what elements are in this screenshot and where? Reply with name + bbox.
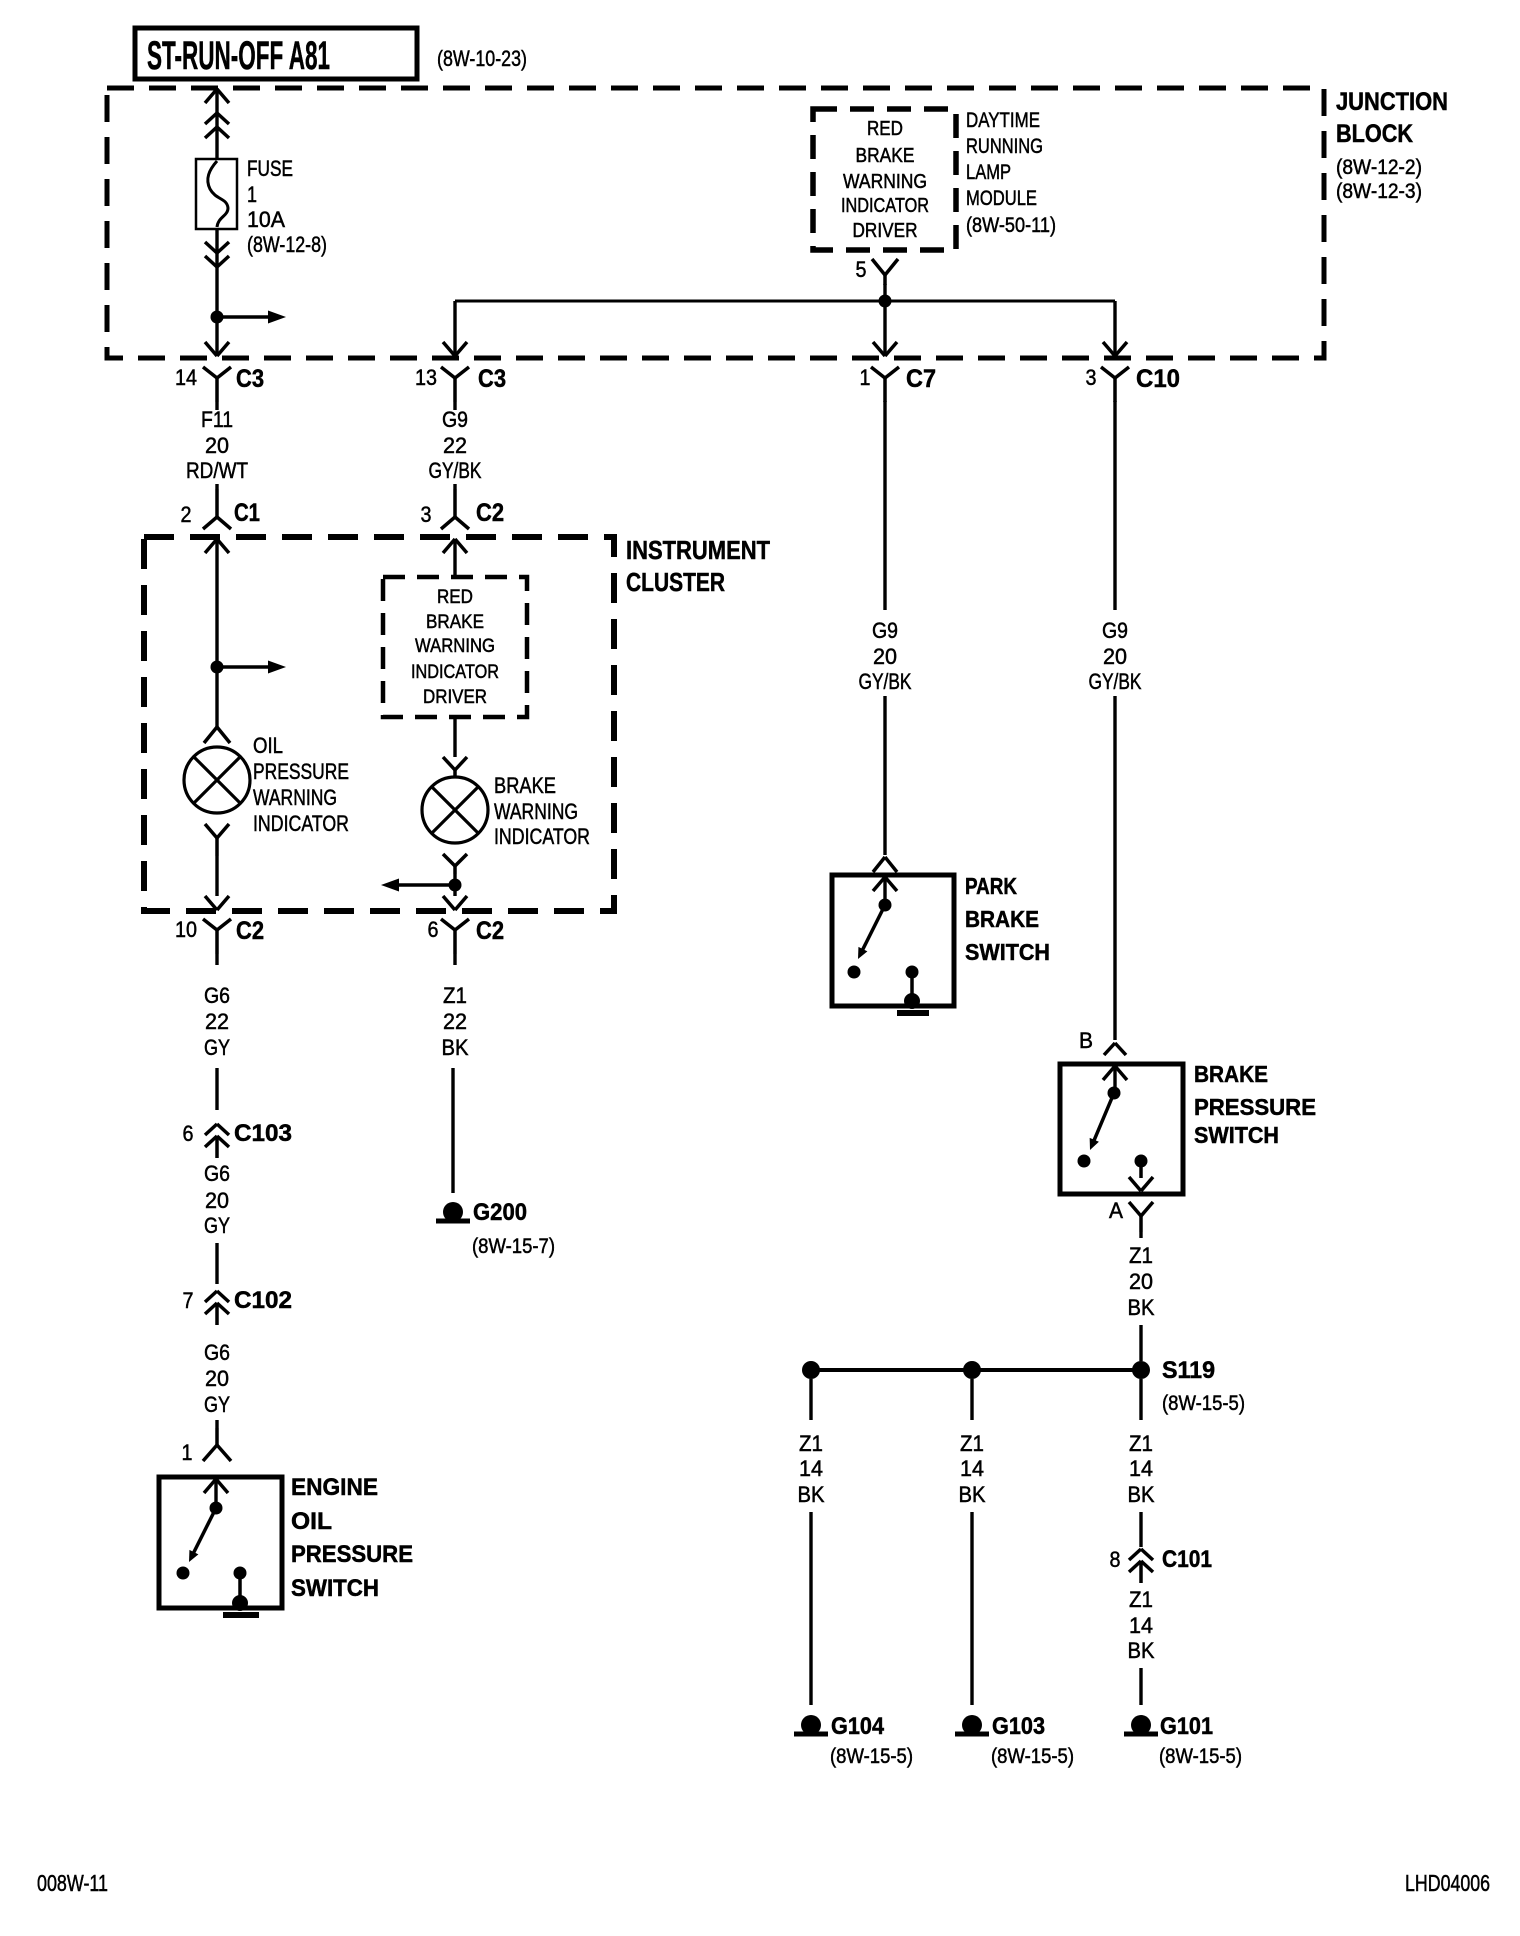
svg-text:Z1: Z1 xyxy=(1129,1431,1153,1456)
connector C10 pin 3 xyxy=(1103,342,1115,356)
switch ground bar xyxy=(223,1612,259,1618)
svg-text:GY/BK: GY/BK xyxy=(1089,669,1142,694)
svg-text:WARNING: WARNING xyxy=(843,171,927,193)
svg-text:CLUSTER: CLUSTER xyxy=(626,567,725,597)
svg-text:20: 20 xyxy=(1103,644,1127,669)
svg-text:BK: BK xyxy=(1128,1482,1155,1507)
svg-text:F11: F11 xyxy=(201,407,233,432)
switch contact left xyxy=(177,1567,190,1580)
svg-text:(8W-50-11): (8W-50-11) xyxy=(966,214,1056,237)
brake warning indicator lamp xyxy=(422,777,488,843)
instrument cluster outline xyxy=(144,537,614,911)
connector C2 pin 10 xyxy=(203,919,217,930)
svg-text:3: 3 xyxy=(421,502,432,527)
daytime running lamp module (red brake warning indicator driver) xyxy=(813,109,956,250)
svg-text:8: 8 xyxy=(1110,1547,1121,1572)
svg-text:14: 14 xyxy=(799,1456,823,1481)
connector C102 pin 7 xyxy=(205,1291,217,1302)
connector C3 pin 13 xyxy=(443,342,455,356)
wire into cluster pin2 xyxy=(205,539,217,553)
wire DRL pin5 xyxy=(883,284,886,301)
wire to C2 pin 10 xyxy=(215,856,218,896)
wire to C103 xyxy=(215,1068,218,1110)
svg-text:2: 2 xyxy=(181,502,192,527)
svg-text:SWITCH: SWITCH xyxy=(1194,1122,1279,1148)
svg-text:G103: G103 xyxy=(992,1713,1045,1740)
svg-text:Z1: Z1 xyxy=(960,1431,984,1456)
park brake contact right xyxy=(906,966,919,979)
ground G104 xyxy=(801,1715,821,1735)
svg-text:FUSE: FUSE xyxy=(247,156,293,181)
svg-text:PRESSURE: PRESSURE xyxy=(253,759,349,784)
svg-text:SWITCH: SWITCH xyxy=(291,1575,379,1602)
svg-text:6: 6 xyxy=(183,1121,194,1146)
wire to C1 xyxy=(215,484,218,489)
wire to oil lamp xyxy=(215,667,218,728)
ground G200 xyxy=(443,1202,463,1222)
junction dot with branch arrow in cluster xyxy=(211,661,224,674)
svg-text:G6: G6 xyxy=(204,983,230,1008)
splice S119 bus xyxy=(811,1368,1141,1372)
svg-text:C3: C3 xyxy=(478,365,506,393)
switch pin 1 connector xyxy=(215,1428,219,1445)
wire A81 to fuse xyxy=(205,89,217,103)
wire below fuse xyxy=(215,229,218,317)
wire to C102 xyxy=(215,1243,218,1284)
svg-text:BK: BK xyxy=(1128,1295,1155,1320)
svg-text:DRIVER: DRIVER xyxy=(853,220,918,242)
svg-text:PRESSURE: PRESSURE xyxy=(291,1541,413,1568)
wire into cluster pin3 xyxy=(443,539,455,553)
svg-text:LAMP: LAMP xyxy=(966,161,1011,184)
splice dot middle xyxy=(963,1361,981,1379)
junction dot with branch arrow xyxy=(211,311,224,324)
wire junction to C3/C7/C10 xyxy=(455,300,1115,303)
switch ground exit dot xyxy=(232,1595,248,1611)
svg-text:INDICATOR: INDICATOR xyxy=(494,824,590,849)
connector C2 pin 6 xyxy=(441,919,455,930)
inline connector above fuse xyxy=(205,113,217,124)
svg-text:(8W-15-5): (8W-15-5) xyxy=(830,1745,913,1768)
svg-text:Z1: Z1 xyxy=(443,983,467,1008)
wire F11 xyxy=(215,402,218,410)
svg-text:ST-RUN-OFF A81: ST-RUN-OFF A81 xyxy=(147,34,330,78)
park brake blade xyxy=(860,905,885,955)
svg-text:G6: G6 xyxy=(204,1161,230,1186)
svg-text:DRIVER: DRIVER xyxy=(423,687,487,708)
svg-text:INDICATOR: INDICATOR xyxy=(411,662,499,683)
park brake contact left xyxy=(848,966,861,979)
svg-text:OIL: OIL xyxy=(291,1508,332,1535)
svg-text:C2: C2 xyxy=(236,917,264,945)
wire to switch pin 1 xyxy=(215,1420,218,1428)
svg-text:008W-11: 008W-11 xyxy=(37,1870,108,1896)
park brake ground bar xyxy=(897,1010,929,1016)
svg-text:7: 7 xyxy=(183,1288,194,1313)
svg-text:20: 20 xyxy=(873,644,897,669)
connector C1 pin 2 xyxy=(215,489,219,517)
wire G9 22 xyxy=(453,402,456,410)
svg-text:Z1: Z1 xyxy=(1129,1587,1153,1612)
wire G103 column xyxy=(970,1379,973,1420)
svg-text:G9: G9 xyxy=(442,407,468,432)
oil pressure warning indicator lamp xyxy=(184,747,250,813)
svg-text:RED: RED xyxy=(437,587,473,608)
pin A connector xyxy=(1129,1202,1141,1216)
svg-text:C2: C2 xyxy=(476,917,504,945)
svg-text:BRAKE: BRAKE xyxy=(426,612,484,633)
svg-text:22: 22 xyxy=(443,433,467,458)
svg-text:G200: G200 xyxy=(473,1199,527,1226)
svg-text:JUNCTION: JUNCTION xyxy=(1336,88,1448,116)
wire to C7 xyxy=(883,301,886,356)
splice dot left xyxy=(802,1361,820,1379)
svg-text:B: B xyxy=(1079,1028,1093,1053)
svg-text:(8W-15-5): (8W-15-5) xyxy=(1162,1392,1245,1415)
park brake input arrow xyxy=(873,877,885,891)
svg-text:C102: C102 xyxy=(234,1287,292,1314)
svg-text:BRAKE: BRAKE xyxy=(965,906,1039,932)
svg-text:GY: GY xyxy=(204,1392,230,1417)
svg-text:(8W-12-2): (8W-12-2) xyxy=(1336,156,1422,179)
svg-text:10A: 10A xyxy=(247,207,285,232)
oil lamp output Y xyxy=(205,824,217,838)
wire to junction xyxy=(453,874,456,885)
svg-text:Z1: Z1 xyxy=(799,1431,823,1456)
svg-text:3: 3 xyxy=(1086,365,1097,390)
svg-text:G104: G104 xyxy=(831,1713,885,1740)
wire to C2 pin 6 xyxy=(453,885,456,896)
svg-text:A: A xyxy=(1109,1198,1123,1223)
svg-text:(8W-15-7): (8W-15-7) xyxy=(472,1235,555,1258)
svg-text:1: 1 xyxy=(182,1440,193,1465)
driver output Y xyxy=(443,757,455,770)
wire G104 column xyxy=(809,1379,812,1420)
svg-text:PARK: PARK xyxy=(965,873,1017,899)
svg-text:PRESSURE: PRESSURE xyxy=(1194,1094,1316,1120)
svg-text:14: 14 xyxy=(175,365,197,390)
svg-text:INDICATOR: INDICATOR xyxy=(253,811,349,836)
svg-text:20: 20 xyxy=(1129,1269,1153,1294)
svg-text:20: 20 xyxy=(205,1366,229,1391)
svg-text:10: 10 xyxy=(175,917,197,942)
connector C101 pin 8 xyxy=(1129,1549,1141,1560)
junction block outline xyxy=(107,88,1324,358)
svg-text:WARNING: WARNING xyxy=(253,785,337,810)
switch input arrow xyxy=(204,1479,216,1493)
svg-text:(8W-15-5): (8W-15-5) xyxy=(991,1745,1074,1768)
brake pressure blade xyxy=(1092,1093,1114,1145)
svg-text:20: 20 xyxy=(205,433,229,458)
svg-text:ENGINE: ENGINE xyxy=(291,1474,378,1501)
wire label Z1 22 BK xyxy=(453,954,456,965)
brake pressure switch box xyxy=(1060,1064,1183,1194)
svg-text:LHD04006: LHD04006 xyxy=(1405,1870,1490,1896)
svg-text:GY/BK: GY/BK xyxy=(859,669,912,694)
svg-text:BK: BK xyxy=(442,1035,469,1060)
svg-text:RUNNING: RUNNING xyxy=(966,135,1043,158)
brake pressure contact left xyxy=(1078,1155,1091,1168)
svg-text:MODULE: MODULE xyxy=(966,187,1037,210)
svg-text:BK: BK xyxy=(959,1482,986,1507)
connector C7 pin 1 xyxy=(873,342,885,356)
svg-text:6: 6 xyxy=(428,917,439,942)
engine oil pressure switch box xyxy=(159,1477,282,1608)
svg-text:(8W-15-5): (8W-15-5) xyxy=(1159,1745,1242,1768)
switch contact right xyxy=(234,1567,247,1580)
svg-text:C10: C10 xyxy=(1136,365,1180,393)
splice dot right S119 xyxy=(1132,1361,1150,1379)
DRL pin 5 xyxy=(872,259,885,275)
brake pressure output arrow xyxy=(1129,1177,1141,1191)
svg-text:SWITCH: SWITCH xyxy=(965,939,1050,965)
svg-text:BK: BK xyxy=(1128,1638,1155,1663)
ground G101 xyxy=(1131,1715,1151,1735)
connector C2 pin 3 xyxy=(453,489,457,517)
svg-text:G6: G6 xyxy=(204,1340,230,1365)
brake pressure contact right xyxy=(1135,1155,1148,1168)
svg-text:INSTRUMENT: INSTRUMENT xyxy=(626,535,770,565)
junction dot at DRL output xyxy=(879,295,892,308)
svg-text:22: 22 xyxy=(205,1009,229,1034)
junction dot with left branch arrow xyxy=(449,879,462,892)
svg-text:BRAKE: BRAKE xyxy=(856,145,915,167)
svg-text:WARNING: WARNING xyxy=(494,799,578,824)
red brake warning indicator driver box xyxy=(383,577,527,717)
brake lamp output Y xyxy=(443,854,455,866)
svg-text:BLOCK: BLOCK xyxy=(1336,120,1413,148)
svg-text:1: 1 xyxy=(247,182,257,207)
svg-text:C2: C2 xyxy=(476,499,504,527)
brake pressure input caret xyxy=(1104,1043,1115,1055)
svg-text:C7: C7 xyxy=(906,365,936,393)
brake pressure common contact xyxy=(1108,1087,1121,1100)
wire label G6 22 GY xyxy=(215,954,218,965)
svg-text:DAYTIME: DAYTIME xyxy=(966,109,1040,132)
svg-text:1: 1 xyxy=(860,365,871,390)
svg-text:5: 5 xyxy=(856,257,867,282)
svg-text:20: 20 xyxy=(205,1188,229,1213)
wire to G200 xyxy=(451,1068,454,1193)
svg-text:Z1: Z1 xyxy=(1129,1243,1153,1268)
connector C3 pin 14 xyxy=(203,367,217,378)
svg-text:C101: C101 xyxy=(1162,1546,1212,1573)
wire below driver box xyxy=(453,717,456,757)
switch common contact xyxy=(210,1502,223,1515)
park brake common contact xyxy=(879,899,892,912)
svg-text:RD/WT: RD/WT xyxy=(186,458,248,483)
svg-text:WARNING: WARNING xyxy=(415,636,495,657)
svg-text:OIL: OIL xyxy=(253,733,283,758)
svg-text:14: 14 xyxy=(960,1456,984,1481)
svg-text:BK: BK xyxy=(798,1482,825,1507)
oil lamp input caret xyxy=(204,727,217,743)
svg-text:G101: G101 xyxy=(1160,1713,1213,1740)
power feed box ST-RUN-OFF A81 xyxy=(135,28,417,79)
svg-text:BRAKE: BRAKE xyxy=(1194,1061,1268,1087)
connector C103 pin 6 xyxy=(205,1124,217,1135)
wire G101 column upper xyxy=(1139,1379,1142,1420)
svg-text:C3: C3 xyxy=(236,365,264,393)
svg-text:G9: G9 xyxy=(1102,618,1128,643)
svg-text:(8W-12-3): (8W-12-3) xyxy=(1336,180,1422,203)
fuse 1 10A xyxy=(196,159,237,229)
svg-text:13: 13 xyxy=(415,365,437,390)
svg-text:RED: RED xyxy=(867,118,903,140)
svg-text:GY: GY xyxy=(204,1213,230,1238)
svg-text:22: 22 xyxy=(443,1009,467,1034)
svg-text:14: 14 xyxy=(1129,1613,1153,1638)
svg-text:GY/BK: GY/BK xyxy=(429,458,482,483)
svg-text:INDICATOR: INDICATOR xyxy=(841,195,929,217)
inline connector below fuse xyxy=(205,242,217,253)
park brake switch box xyxy=(832,875,954,1006)
ground G103 xyxy=(962,1715,982,1735)
svg-text:G9: G9 xyxy=(872,618,898,643)
brake pressure input arrow xyxy=(1103,1066,1115,1080)
svg-text:C103: C103 xyxy=(234,1120,292,1147)
svg-text:14: 14 xyxy=(1129,1456,1153,1481)
wire to connector C3 pin 14 xyxy=(215,317,218,356)
svg-text:BRAKE: BRAKE xyxy=(494,773,556,798)
park brake input caret xyxy=(873,857,885,872)
svg-text:(8W-12-8): (8W-12-8) xyxy=(247,232,327,257)
svg-text:C1: C1 xyxy=(234,499,260,527)
svg-text:S119: S119 xyxy=(1162,1357,1215,1384)
svg-text:(8W-10-23): (8W-10-23) xyxy=(437,46,527,71)
switch blade xyxy=(191,1508,216,1558)
svg-text:GY: GY xyxy=(204,1035,230,1060)
park brake ground exit dot xyxy=(904,993,920,1009)
